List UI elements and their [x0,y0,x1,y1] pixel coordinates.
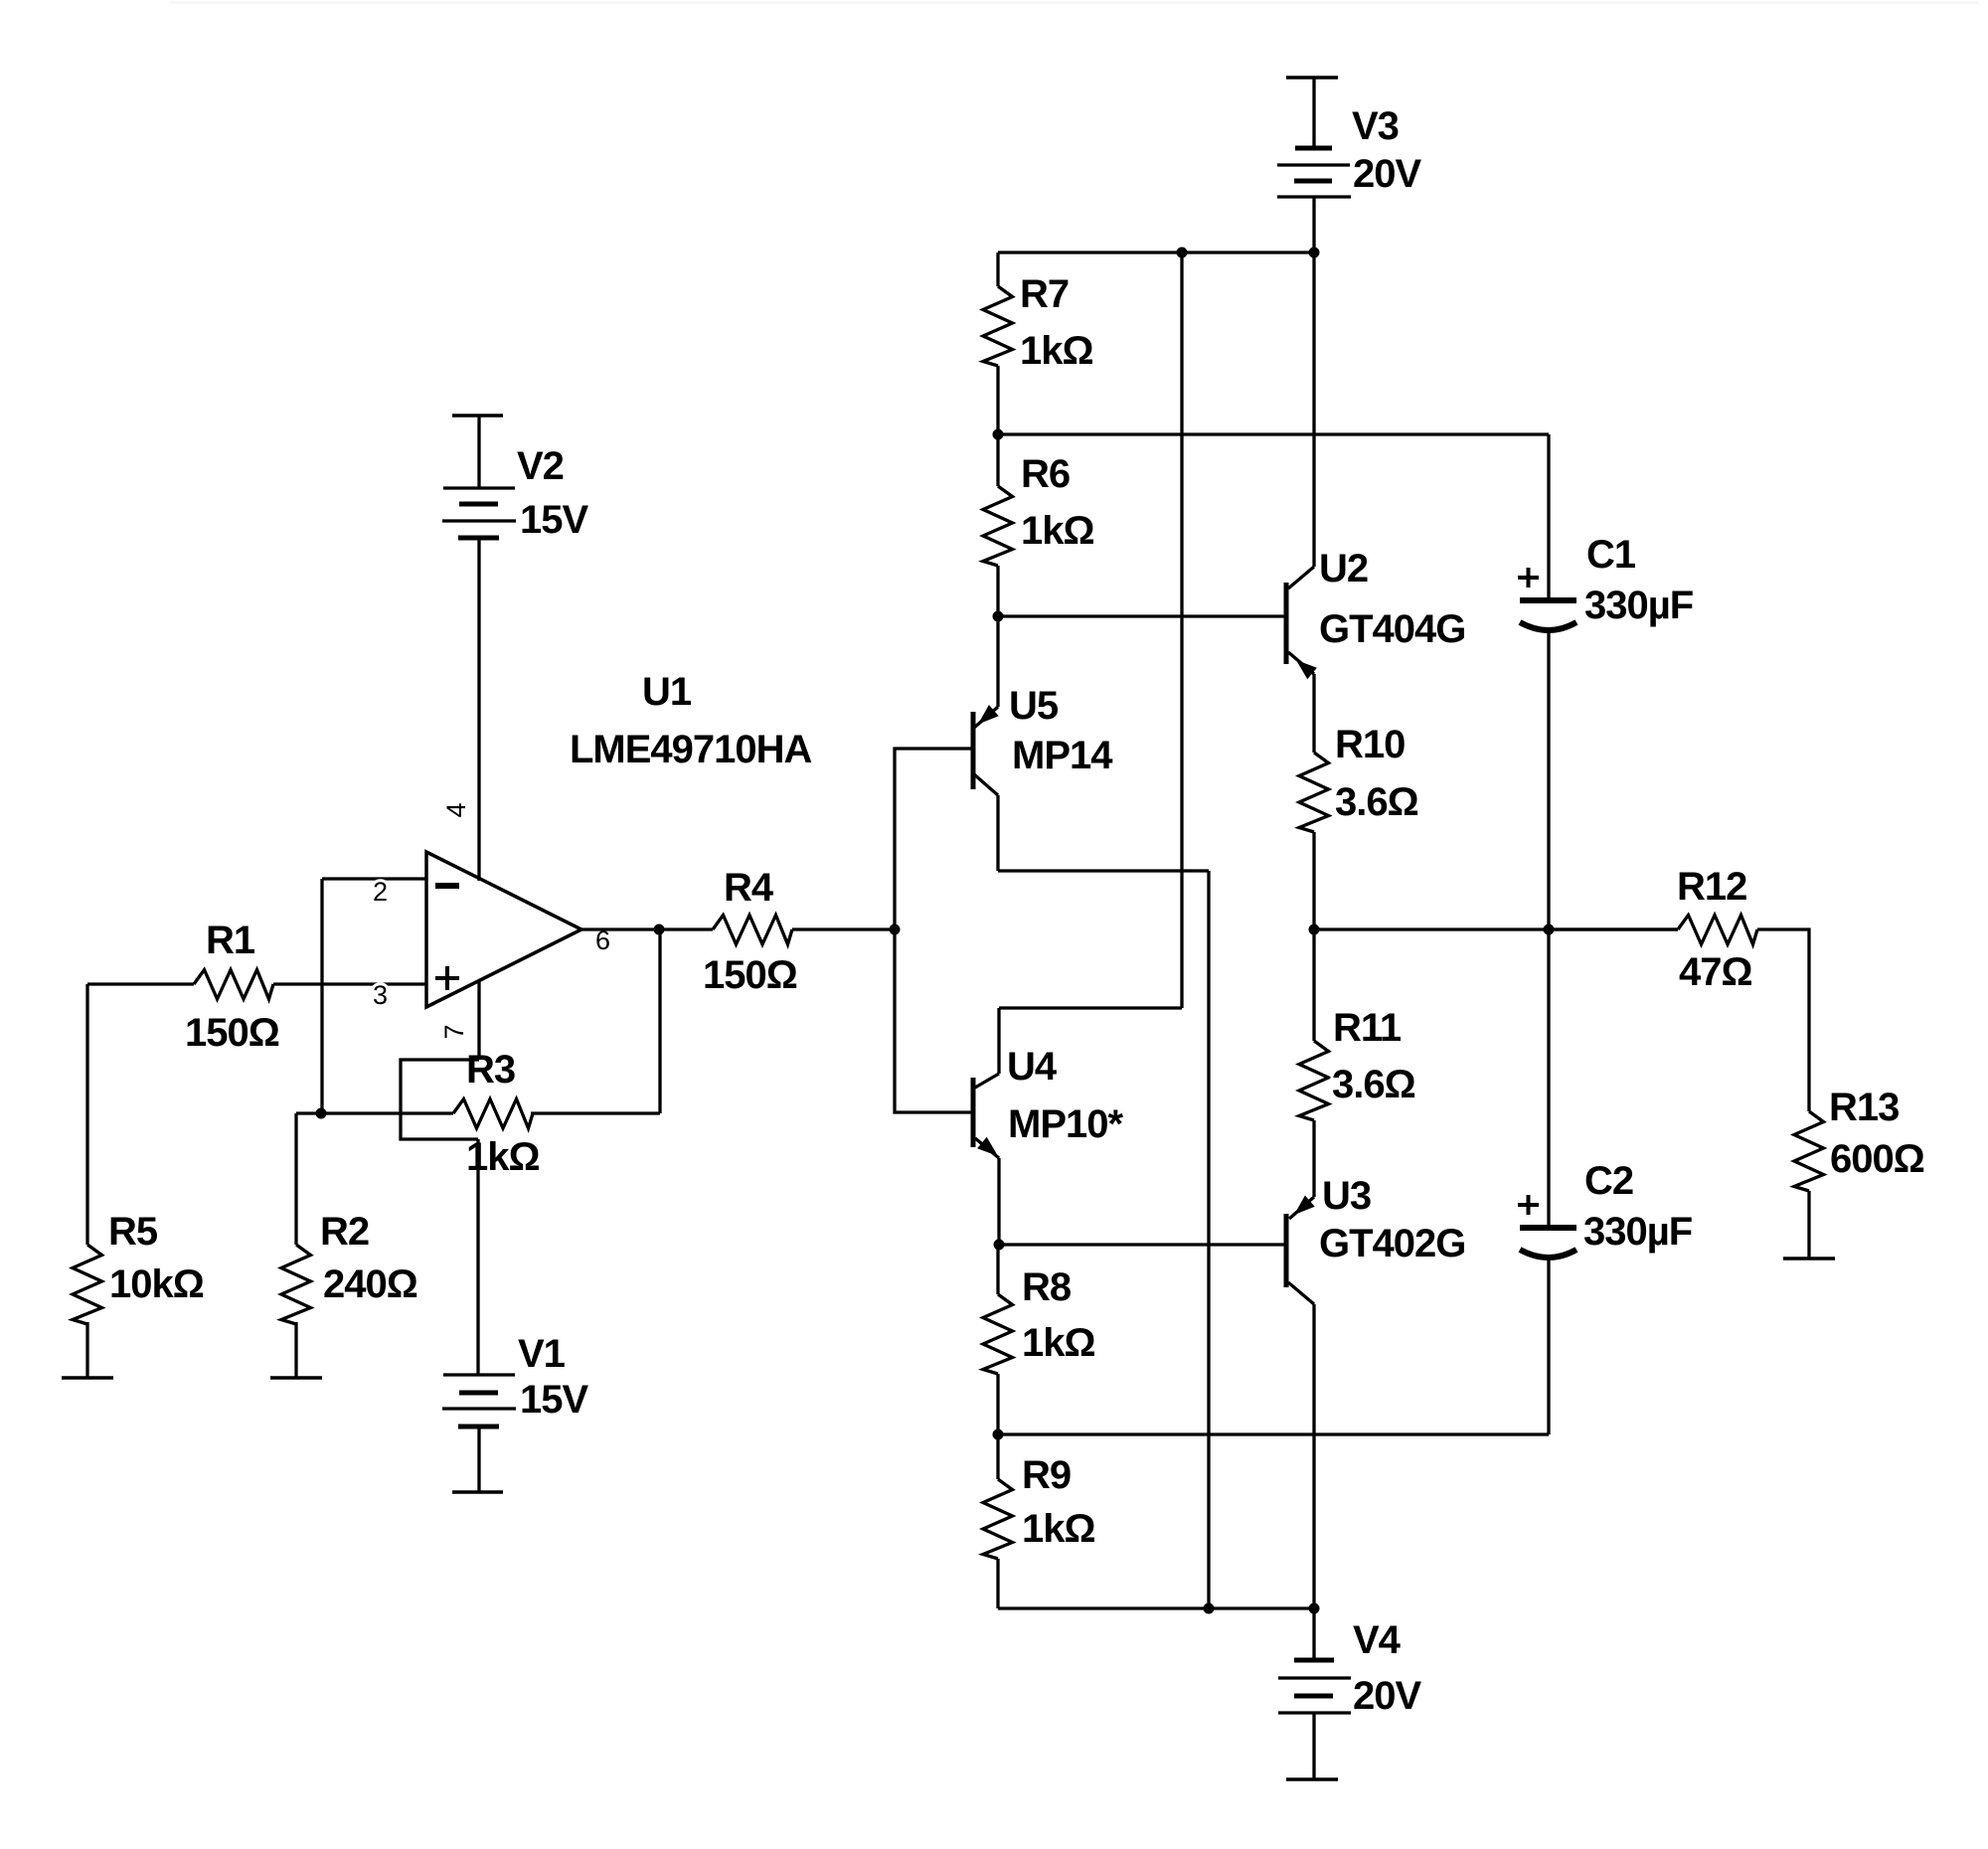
svg-text:1kΩ: 1kΩ [1022,1321,1095,1365]
wire op-amp output [581,927,713,930]
wire U4 base lead [895,929,971,1112]
transistor U5 collector diagonal [974,774,998,795]
resistor R5 [73,1245,102,1324]
capacitor C1 bottom plate (curved) [1520,622,1576,630]
wire U5 base lead [895,749,971,929]
transistor U2 emitter arrow [1296,660,1317,679]
op-amp U1 triangle [426,852,581,1007]
resistor R3 [453,1099,533,1129]
wire U4 collector stub [997,1008,1000,1074]
wire U3 collector to rail [1312,1304,1315,1608]
svg-text:V4: V4 [1353,1618,1402,1662]
svg-text:1kΩ: 1kΩ [1022,1507,1095,1551]
svg-text:R10: R10 [1335,723,1405,766]
wire R7 bottom lead [996,366,999,434]
battery V3 plate long2 [1277,195,1351,198]
wire R11 top lead [1312,929,1315,1041]
battery V1 plate long2 [442,1407,516,1410]
wire R5 bottom lead [85,1322,88,1378]
capacitor C1 plus sign [1518,576,1539,580]
wire R11 bottom lead [1312,1120,1315,1197]
svg-text:600Ω: 600Ω [1830,1137,1924,1181]
wire C2 bottom lead [1547,1260,1550,1434]
wire U2 base line [998,614,1284,617]
battery V3 top terminal bar [1286,76,1338,80]
svg-text:U5: U5 [1009,684,1059,728]
transistor U5 emitter arrow [978,705,999,725]
wire pin3 input net (R1 left lead) [87,982,194,985]
wire V1 top lead [476,1139,479,1375]
wire pin7 jog [401,1060,479,1139]
svg-text:20V: 20V [1353,1674,1421,1718]
op-amp minus sign (pin2 input) [435,883,459,889]
battery V4 plate long1 [1278,1676,1351,1679]
svg-text:R8: R8 [1022,1265,1072,1309]
battery V4 plate short2 [1294,1694,1333,1699]
wire output line [1314,927,1678,930]
svg-text:LME49710HA: LME49710HA [570,728,812,771]
node U4 emitter/R8/U3 base [994,1240,1005,1251]
svg-text:R1: R1 [206,919,255,962]
transistor U5 base bar [971,712,976,789]
wire pin2 horizontal [322,877,426,880]
svg-text:U2: U2 [1319,547,1368,590]
wire R10 bottom lead [1312,832,1315,929]
node R7/R6/C1 [993,429,1004,440]
transistor U3 collector diagonal [1288,1282,1314,1304]
svg-text:R12: R12 [1677,865,1746,909]
wire R12 right lead [1757,929,1809,1111]
battery V1 stem [477,1427,480,1492]
wire U4 emitter stub [997,1158,1000,1245]
node bottom rail / right bus [1204,1603,1215,1614]
svg-text:GT402G: GT402G [1319,1222,1465,1265]
transistor U4 base bar [971,1078,976,1147]
battery V4 bottom terminal bar [1286,1777,1338,1781]
wire C1 bottom lead [1547,632,1550,929]
svg-text:R3: R3 [466,1048,515,1092]
svg-text:47Ω: 47Ω [1679,950,1752,994]
wire U5 emitter stub [996,616,999,707]
svg-text:MP14: MP14 [1012,734,1113,777]
battery V1 bottom terminal bar [452,1490,503,1494]
resistor R4 [713,916,792,945]
battery V4 plate long2 [1278,1711,1351,1714]
wire U5 collector horizontal [998,869,1209,872]
svg-text:V1: V1 [518,1332,566,1376]
svg-text:R5: R5 [108,1210,158,1254]
node output pin6 [654,924,665,935]
resistor R8 [983,1294,1013,1374]
svg-text:C1: C1 [1586,533,1636,577]
svg-text:V3: V3 [1352,104,1399,148]
node output/C1-C2 [1544,924,1555,935]
wire C1 top lead [1547,434,1550,597]
node R4/driver bases [890,924,901,935]
svg-text:15V: 15V [520,1378,588,1422]
svg-text:3.6Ω: 3.6Ω [1335,780,1418,824]
wire feedback vertical to output [658,929,661,1113]
battery V2 plate long2 [442,519,516,522]
resistor R2 [281,1245,311,1324]
svg-text:4: 4 [441,802,471,817]
node output/R10/R11 [1309,924,1320,935]
svg-text:15V: 15V [520,498,588,542]
wire U3 base line [998,1243,1284,1246]
node top rail / mid bus [1177,248,1188,258]
wire pin7 lead [477,981,480,1060]
wire R7 top lead [996,252,999,286]
capacitor C2 top plate [1520,1225,1576,1231]
svg-text:R13: R13 [1829,1086,1899,1129]
battery V3 plate short2 [1294,179,1332,184]
transistor U4 emitter diagonal [975,1138,999,1158]
battery V4 stem top [1312,1608,1315,1660]
transistor U2 base bar [1284,583,1289,664]
wire R12 left lead [1549,927,1678,930]
battery V4 plate short1 [1294,1658,1334,1663]
svg-text:V2: V2 [517,444,564,488]
svg-text:1kΩ: 1kΩ [1020,329,1093,373]
node feedback junction [316,1108,327,1119]
wire R6 top lead [996,434,999,486]
wire C1 top branch [998,432,1549,435]
svg-text:GT404G: GT404G [1319,607,1465,651]
ground (R2) [270,1376,322,1380]
node R8/R9/C2 [993,1429,1004,1440]
wire right mid bus down [1207,871,1210,1608]
wire pin2 vertical to feedback node [320,879,323,1113]
svg-text:R4: R4 [724,866,774,910]
node top rail / V3 [1309,248,1320,258]
battery V1 plate short1 [459,1391,498,1396]
transistor U4 emitter arrow [977,1137,998,1156]
battery V3 plate long1 [1277,163,1350,166]
svg-text:R7: R7 [1020,272,1069,316]
transistor U3 emitter arrow [1294,1196,1315,1216]
battery V1 plate long1 [443,1373,515,1376]
wire R6 bottom lead [996,566,999,616]
wire R3 right lead [531,1111,660,1114]
resistor R9 [983,1479,1013,1559]
svg-text:3: 3 [373,980,388,1010]
resistor R13 [1794,1111,1824,1191]
wire U5 collector stub [996,795,999,871]
wire R8 top lead [996,1245,999,1294]
ground (R13) [1783,1257,1835,1261]
resistor R11 [1299,1041,1329,1120]
battery V2 plate short2 [458,536,499,541]
battery V1 plate short2 [458,1425,499,1429]
node R6/U5 emitter/U2 base [993,611,1004,622]
svg-text:330µF: 330µF [1583,1210,1692,1254]
svg-text:3.6Ω: 3.6Ω [1332,1063,1415,1106]
op-amp plus sign (pin3 input) [435,976,459,980]
svg-text:R9: R9 [1022,1453,1071,1497]
wire V2 pin4 lead [477,538,480,881]
resistor R12 [1678,916,1757,945]
svg-text:R11: R11 [1333,1006,1402,1050]
battery V2 stem [477,416,480,488]
wire U2 emitter to R10 [1312,674,1315,753]
resistor R6 [983,486,1013,566]
transistor U3 base bar [1284,1214,1289,1287]
svg-text:R6: R6 [1021,452,1070,496]
transistor U5 emitter diagonal [974,707,998,728]
node bottom rail / V4 [1309,1603,1320,1614]
capacitor C2 bottom plate (curved) [1520,1250,1576,1258]
svg-text:U4: U4 [1007,1045,1058,1089]
svg-text:150Ω: 150Ω [703,953,797,997]
wire mid bus vertical [1180,252,1183,1008]
wire bottom rail -20V [998,1606,1314,1609]
svg-text:R2: R2 [320,1210,369,1254]
resistor R10 [1299,753,1329,832]
svg-text:240Ω: 240Ω [323,1262,417,1306]
wire R4 right lead [792,927,895,930]
wire R2 bottom lead [294,1322,297,1378]
wire R1 right lead to op-amp pin 3 [273,982,426,985]
transistor U2 emitter diagonal [1288,652,1314,674]
svg-text:1kΩ: 1kΩ [1021,509,1094,553]
svg-text:150Ω: 150Ω [185,1011,279,1055]
ground (R5) [62,1376,113,1380]
battery V4 stem bottom [1312,1713,1315,1779]
svg-text:U3: U3 [1322,1174,1371,1218]
resistor R7 [983,286,1013,366]
wire U4 collector horizontal [999,1006,1182,1009]
wire R8 bottom lead [996,1374,999,1434]
svg-text:2: 2 [373,877,388,907]
transistor U2 collector diagonal [1288,567,1314,588]
svg-text:20V: 20V [1353,152,1421,196]
capacitor C2 plus sign [1518,1203,1539,1207]
wire R3 left lead [296,1111,453,1114]
svg-text:10kΩ: 10kΩ [109,1262,204,1306]
faint scan artifact at top edge [169,1,1978,4]
wire V3/U2 collector vertical [1312,197,1315,567]
wire C2 top lead [1547,929,1550,1225]
wire R13 bottom lead [1807,1191,1810,1259]
transistor U3 emitter diagonal [1289,1197,1314,1219]
battery V3 stem [1312,78,1315,148]
svg-text:7: 7 [439,1024,469,1039]
wire top rail +20V [998,251,1314,253]
battery V2 plate long1 [443,486,515,489]
transistor U4 collector diagonal [975,1074,999,1088]
svg-text:MP10*: MP10* [1008,1102,1123,1146]
wire C2 bottom branch [998,1432,1549,1435]
resistor R1 [194,970,273,1000]
wire R2 top lead [294,1113,297,1245]
battery V3 plate short1 [1295,146,1332,151]
capacitor C1 top plate [1520,597,1576,603]
battery V2 top terminal bar [452,414,503,418]
battery V2 plate short1 [459,502,498,507]
wire R9 top lead [996,1434,999,1479]
wire R5 top lead [85,984,88,1245]
svg-text:C2: C2 [1584,1159,1633,1203]
svg-text:U1: U1 [642,670,692,714]
svg-text:330µF: 330µF [1584,584,1693,627]
wire R9 bottom lead [996,1559,999,1608]
